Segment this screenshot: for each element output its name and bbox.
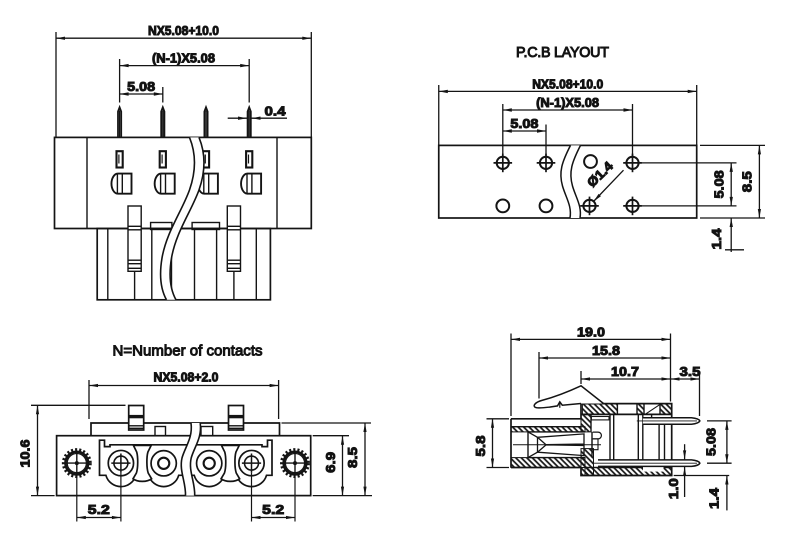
lower block wall [171, 229, 173, 300]
pcb hole A1 [497, 157, 509, 169]
sleeve bottom wall hatch [511, 458, 585, 468]
pin 1 top view [118, 107, 121, 137]
contact rear hook [593, 432, 602, 439]
svg-text:15.8: 15.8 [592, 343, 620, 358]
svg-text:10.6: 10.6 [18, 440, 33, 468]
contact slot 4 [246, 151, 252, 167]
front view left end cap divider [86, 137, 88, 228]
pin 1 side view [643, 418, 700, 425]
front view right end cap divider [276, 137, 278, 228]
lower block wall [194, 229, 196, 300]
svg-text:(N-1)X5.08: (N-1)X5.08 [536, 95, 599, 110]
svg-text:3.5: 3.5 [680, 364, 701, 379]
lower block wall [216, 229, 218, 300]
sleeve centerline [513, 444, 601, 446]
wire entry 1 [111, 174, 131, 194]
dimension 5.08 vertical pcb [730, 163, 732, 206]
leader and label dia 1.4 [594, 170, 624, 201]
dimension 6.9 [313, 435, 349, 437]
lower block wall [151, 229, 153, 300]
dimension 19.0 [511, 338, 671, 340]
right side extensions pcb [640, 162, 737, 164]
dimension NX5.08+2.0 [88, 380, 90, 419]
pcb board outline [439, 145, 697, 218]
dimension NX5.08+10.0 front [56, 37, 311, 39]
svg-text:NX5.08+2.0: NX5.08+2.0 [154, 370, 219, 385]
pin 2 side view [598, 460, 700, 467]
knurled screw right [280, 448, 310, 478]
contact slot 1 [117, 151, 123, 167]
svg-text:10.7: 10.7 [611, 364, 639, 379]
wire entry 4 [241, 174, 261, 194]
pin 2 top view [161, 107, 164, 137]
lower block tab right [192, 223, 219, 230]
lower block tab left [151, 223, 172, 230]
dimension 3.5 [671, 378, 700, 380]
plug upper step [91, 423, 280, 436]
pin 4 top view [248, 107, 251, 137]
pin 3 top view [204, 107, 207, 137]
dimension 1.0 pin [684, 444, 686, 459]
svg-text:1.4: 1.4 [706, 487, 721, 509]
dimension 5.2 right [252, 517, 296, 519]
dimension 5.2 left [77, 517, 121, 519]
contact 2 [151, 451, 176, 476]
dimension 1.4 pcb [730, 218, 732, 252]
dimension 5.8 [487, 418, 510, 420]
wire entry 2 [155, 174, 175, 194]
dimension NX5.08+10.0 pcb [439, 90, 697, 92]
svg-text:P.C.B LAYOUT: P.C.B LAYOUT [516, 45, 609, 61]
svg-text:1.0: 1.0 [666, 478, 681, 499]
plug body flange [57, 436, 311, 496]
dimension 8.5 pcb [758, 145, 760, 218]
svg-text:8.5: 8.5 [740, 171, 755, 192]
svg-text:5.08: 5.08 [510, 116, 538, 131]
extension lines front view [55, 32, 57, 137]
contact separator [133, 445, 152, 481]
right screw slide [227, 206, 240, 271]
pcb hole A2 [540, 157, 552, 169]
svg-text:8.5: 8.5 [345, 447, 360, 468]
contact 1 [108, 450, 133, 475]
pin 2 notch [643, 460, 664, 472]
svg-text:19.0: 19.0 [577, 324, 605, 339]
svg-text:5.2: 5.2 [262, 502, 284, 517]
block top strip bottom line [581, 413, 672, 415]
pcb hole A4 [626, 157, 638, 169]
plug housing opening outline [100, 440, 273, 486]
block corner hatch [581, 449, 594, 476]
screw wire [134, 271, 136, 300]
dimension 5.08 pcb [503, 130, 546, 132]
contact slot 3 [203, 151, 209, 167]
dimension 0.4 pin width [228, 117, 247, 119]
block left wall hatch [581, 414, 591, 432]
locking lever [534, 386, 603, 408]
svg-text:5.08: 5.08 [127, 79, 155, 94]
front view: header body [55, 137, 312, 228]
dimension 10.7 [581, 378, 671, 380]
svg-text:5.08: 5.08 [712, 170, 727, 198]
svg-text:1.4: 1.4 [709, 228, 724, 250]
pcb hole A3 [584, 155, 597, 168]
pcb hole B4 [626, 200, 638, 212]
dimension (N-1)X5.08 pcb [503, 109, 633, 111]
lower block wall [255, 229, 257, 300]
side view sleeve outline [511, 418, 581, 420]
contact separator [221, 445, 240, 481]
step notch left [155, 427, 166, 436]
extension lines side view [510, 334, 512, 417]
step notch right [201, 427, 213, 436]
lower block wall [107, 229, 109, 300]
svg-text:5.2: 5.2 [88, 502, 110, 517]
screw wire [233, 271, 235, 300]
sleeve mouth chamfers [528, 432, 538, 437]
latch spring line [645, 404, 660, 414]
dimension 8.5 plug [282, 422, 372, 424]
contact slot 2 [160, 151, 166, 167]
svg-text:6.9: 6.9 [323, 452, 338, 473]
dimension 1.4 side [674, 475, 730, 477]
pcb hole B2 [540, 200, 553, 213]
latch left [129, 406, 144, 431]
contact 4 [239, 450, 264, 475]
dimension 10.6 [31, 404, 126, 406]
svg-text:5.8: 5.8 [473, 436, 488, 457]
pcb hole B1 [496, 200, 509, 213]
break line front view [161, 137, 204, 299]
contact spring [537, 437, 539, 452]
latch right [229, 406, 244, 431]
dimension 5.08 front [120, 93, 163, 95]
sleeve top wall hatch [511, 427, 585, 432]
svg-text:NX5.08+10.0: NX5.08+10.0 [532, 76, 603, 91]
block bottom band [585, 467, 672, 469]
break line plug view [181, 423, 200, 496]
extension lines pcb [438, 85, 440, 145]
pcb break line [561, 145, 581, 218]
svg-text:0.4: 0.4 [265, 104, 287, 119]
wire entry 3 [198, 174, 218, 194]
svg-text:5.08: 5.08 [704, 428, 719, 456]
contact 3 [197, 451, 222, 476]
block interior walls [609, 414, 611, 460]
svg-text:(N-1)X5.08: (N-1)X5.08 [152, 51, 215, 66]
dimension 15.8 [539, 357, 671, 359]
svg-text:N=Number of contacts: N=Number of contacts [113, 343, 263, 360]
leader lines to 5.2 dims [76, 476, 78, 522]
pcb hole B3 [583, 200, 595, 212]
sleeve mouth inner wall [527, 432, 529, 458]
dimension 5.08 side [707, 420, 732, 422]
block top strip hatches [582, 404, 617, 415]
dimension (N-1)X5.08 front [120, 65, 250, 67]
svg-text:NX5.08+10.0: NX5.08+10.0 [148, 23, 219, 38]
front view: lower plug block [97, 229, 270, 300]
left screw slide [128, 206, 141, 271]
side view block outline [581, 404, 672, 476]
knurled screw left [62, 448, 92, 478]
